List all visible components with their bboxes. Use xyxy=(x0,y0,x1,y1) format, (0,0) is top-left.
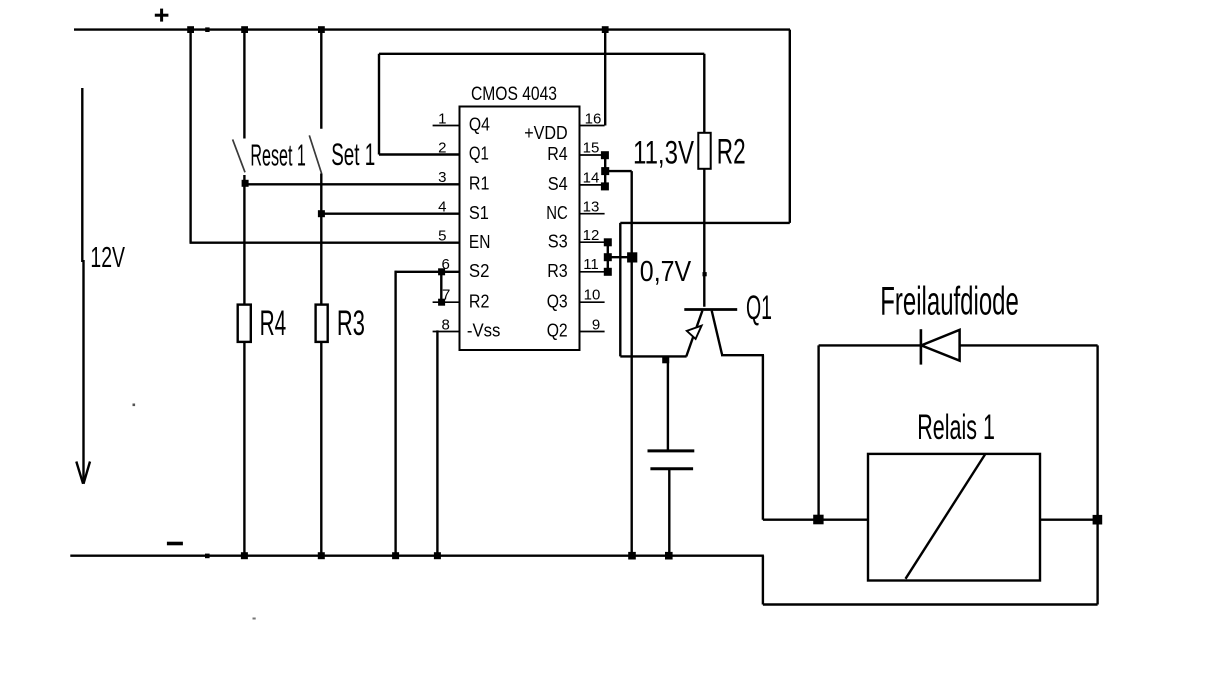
svg-text:Q1: Q1 xyxy=(469,144,489,164)
transistor Q1 emitter lead xyxy=(686,311,702,357)
wire Q1 output vertical riser xyxy=(378,54,380,155)
pin 10 stub xyxy=(580,301,605,303)
junction pins 12-11 mid xyxy=(604,253,612,261)
svg-text:3: 3 xyxy=(438,169,446,186)
svg-text:Reset 1: Reset 1 xyxy=(250,138,306,173)
node minus label xyxy=(167,542,183,546)
wire pin 6 S2 horizontal xyxy=(395,271,460,273)
wire EN branch vertical xyxy=(189,30,191,243)
pin 9 stub xyxy=(580,331,605,333)
diode D1 triangle xyxy=(921,330,959,361)
svg-text:S4: S4 xyxy=(548,174,568,194)
wire S3 R3 horizontal to loop xyxy=(608,256,636,258)
pin 12 stub xyxy=(580,241,605,243)
svg-text:Relais 1: Relais 1 xyxy=(917,408,995,447)
svg-text:R2: R2 xyxy=(469,291,490,311)
wire R2 top lead xyxy=(703,54,705,133)
resistor R3 xyxy=(316,305,328,342)
svg-text:R1: R1 xyxy=(469,174,490,194)
junction relay right terminal xyxy=(1093,515,1103,525)
svg-text:1: 1 xyxy=(438,110,446,127)
junction pin 6 xyxy=(438,268,445,275)
svg-text:S3: S3 xyxy=(548,231,568,251)
svg-text:16: 16 xyxy=(585,110,602,127)
svg-text:S2: S2 xyxy=(469,261,490,281)
junction pin 12 xyxy=(604,238,612,246)
wire Q1 output top horizontal to R2 xyxy=(379,53,704,55)
wire ground rail drop at right xyxy=(762,556,764,605)
wire EN branch horizontal to pin 5 xyxy=(190,241,460,243)
pin 7 stub xyxy=(433,301,460,303)
wire collector to relay horizontal xyxy=(763,519,868,521)
junction ground rail at Vss wire xyxy=(434,552,441,559)
svg-text:8: 8 xyxy=(442,316,450,333)
junction on top rail at Set branch xyxy=(318,26,325,33)
pin 6 stub xyxy=(433,271,460,273)
pin 8 stub xyxy=(433,331,460,333)
wire loop vertical to ground xyxy=(631,171,633,556)
wire freewheel diode left vertical xyxy=(817,345,819,519)
svg-text:R3: R3 xyxy=(337,303,365,343)
junction ground rail at R3 xyxy=(318,552,325,559)
junction small artifact dot on top rail xyxy=(205,27,209,32)
capacitor C1 top plate xyxy=(648,449,695,452)
wire Reset lower vertical to R4 xyxy=(243,175,245,305)
svg-text:-Vss: -Vss xyxy=(467,321,501,341)
svg-text:5: 5 xyxy=(438,228,446,245)
transistor Q1 collector lead xyxy=(712,311,722,355)
junction pin 14 xyxy=(601,182,609,190)
wire emitter supply horizontal xyxy=(620,222,790,224)
wire Set to pin 4 horizontal xyxy=(321,212,459,214)
svg-text:9: 9 xyxy=(592,316,600,333)
capacitor C1 top lead xyxy=(667,356,669,450)
switch Reset 1 lever xyxy=(233,139,245,172)
wire top +12V rail xyxy=(74,28,790,30)
junction small artifact dot on ground rail xyxy=(205,554,210,559)
resistor R4 xyxy=(238,305,251,342)
switch Set 1 lever xyxy=(309,135,321,173)
junction capacitor top xyxy=(662,356,669,363)
junction loop at S3 R3 wire xyxy=(627,252,637,262)
pin 16 stub xyxy=(580,125,605,127)
relay K1 box xyxy=(868,454,1040,581)
wire right return vertical xyxy=(1096,345,1098,604)
svg-text:4: 4 xyxy=(438,199,446,216)
wire relay right lead xyxy=(1040,519,1098,521)
svg-text:+VDD: +VDD xyxy=(524,123,568,143)
capacitor C1 bottom plate xyxy=(650,467,693,470)
junction ground rail at capacitor xyxy=(665,552,673,560)
wire pin 6 to pin 7 link xyxy=(440,272,442,302)
svg-text:12: 12 xyxy=(583,227,600,244)
junction Reset switch output xyxy=(242,180,249,187)
wire R3 bottom to ground rail xyxy=(320,342,322,556)
junction ground rail at S2 wire xyxy=(392,552,399,559)
svg-text:10: 10 xyxy=(584,287,601,304)
wire pin 6 S2 vertical to ground xyxy=(394,271,396,556)
svg-text:Set 1: Set 1 xyxy=(331,136,375,172)
diode D1 cathode bar xyxy=(920,329,923,364)
wire collector vertical down xyxy=(762,355,764,520)
pin 3 stub xyxy=(433,183,460,185)
wire pin 8 Vss vertical to ground xyxy=(436,330,438,555)
pin 15 stub xyxy=(580,154,605,156)
svg-text:CMOS 4043: CMOS 4043 xyxy=(471,84,557,105)
resistor R2 xyxy=(698,133,710,169)
pin 13 stub xyxy=(580,213,605,215)
svg-text:Q2: Q2 xyxy=(547,321,568,341)
svg-text:0,7V: 0,7V xyxy=(640,256,692,288)
junction ground rail at R4 xyxy=(241,552,248,559)
capacitor C1 bottom lead xyxy=(668,469,670,556)
svg-text:R4: R4 xyxy=(260,303,287,343)
junction Set switch output xyxy=(318,210,325,217)
pin 4 stub xyxy=(433,213,460,215)
junction pins 15-14 mid xyxy=(601,167,609,175)
transistor Q1 emitter arrow xyxy=(687,326,702,339)
svg-text:13: 13 xyxy=(583,199,600,216)
wire 12V source arrow line xyxy=(76,88,90,484)
wire collector horizontal xyxy=(721,354,764,356)
node speck artifact 1 xyxy=(133,404,136,407)
pin 14 stub xyxy=(580,184,605,186)
wire emitter horizontal xyxy=(620,355,686,357)
wire pins 12-11 link vertical xyxy=(607,242,609,272)
wire emitter supply left vertical xyxy=(619,223,621,357)
svg-text:Q1: Q1 xyxy=(746,289,772,327)
wire pins 15-14 link vertical xyxy=(604,155,606,187)
svg-text:Q4: Q4 xyxy=(469,115,490,135)
wire VDD pin 16 vertical xyxy=(604,30,606,126)
junction ground rail at S3R3 loop xyxy=(628,552,636,560)
wire Reset branch upper vertical xyxy=(243,30,245,139)
pin 2 stub xyxy=(433,154,460,156)
node plus label xyxy=(155,9,169,22)
svg-text:S1: S1 xyxy=(469,203,489,223)
svg-text:R3: R3 xyxy=(547,261,568,281)
svg-text:EN: EN xyxy=(469,232,491,252)
node speck artifact 2 xyxy=(253,618,256,620)
wire bottom return horizontal xyxy=(763,603,1098,605)
svg-text:12V: 12V xyxy=(90,242,125,274)
junction on top rail at EN branch xyxy=(187,26,194,33)
wire R4 bottom to ground rail xyxy=(243,342,245,556)
wire Q1 output pin 2 horizontal xyxy=(379,153,460,155)
svg-text:15: 15 xyxy=(583,139,600,156)
svg-text:R2: R2 xyxy=(717,132,746,171)
svg-text:14: 14 xyxy=(583,169,600,186)
wire Reset to pin 3 horizontal xyxy=(244,183,459,185)
junction pin 11 xyxy=(604,268,612,276)
relay K1 diagonal xyxy=(906,455,986,579)
junction small tick on base wire xyxy=(703,272,707,276)
wire freewheel diode horizontal xyxy=(819,344,1098,346)
junction pin 7 xyxy=(438,299,445,306)
wire emitter supply right vertical from rail xyxy=(789,30,791,223)
pin 1 stub xyxy=(433,125,460,127)
svg-text:Q3: Q3 xyxy=(547,291,568,311)
wire Set lower vertical to R3 xyxy=(320,174,322,305)
junction on top rail at Reset branch xyxy=(241,26,248,33)
pin 5 stub xyxy=(433,242,460,244)
svg-text:11,3V: 11,3V xyxy=(633,134,694,170)
wire Set branch upper vertical xyxy=(320,30,322,129)
junction pin 15 xyxy=(601,151,609,159)
svg-text:Freilaufdiode: Freilaufdiode xyxy=(880,280,1019,324)
svg-text:R4: R4 xyxy=(547,144,568,164)
wire bottom ground rail xyxy=(70,555,764,557)
junction relay left terminal xyxy=(813,515,823,525)
IC U1 CMOS 4043 body xyxy=(460,107,580,351)
pin 11 stub xyxy=(580,271,605,273)
svg-text:11: 11 xyxy=(583,256,599,273)
wire R2 bottom lead to base xyxy=(703,169,705,307)
transistor Q1 base bar xyxy=(684,308,737,311)
wire S4 horizontal to loop xyxy=(605,170,632,172)
junction on top rail at VDD branch xyxy=(602,26,609,33)
svg-text:NC: NC xyxy=(546,203,568,223)
